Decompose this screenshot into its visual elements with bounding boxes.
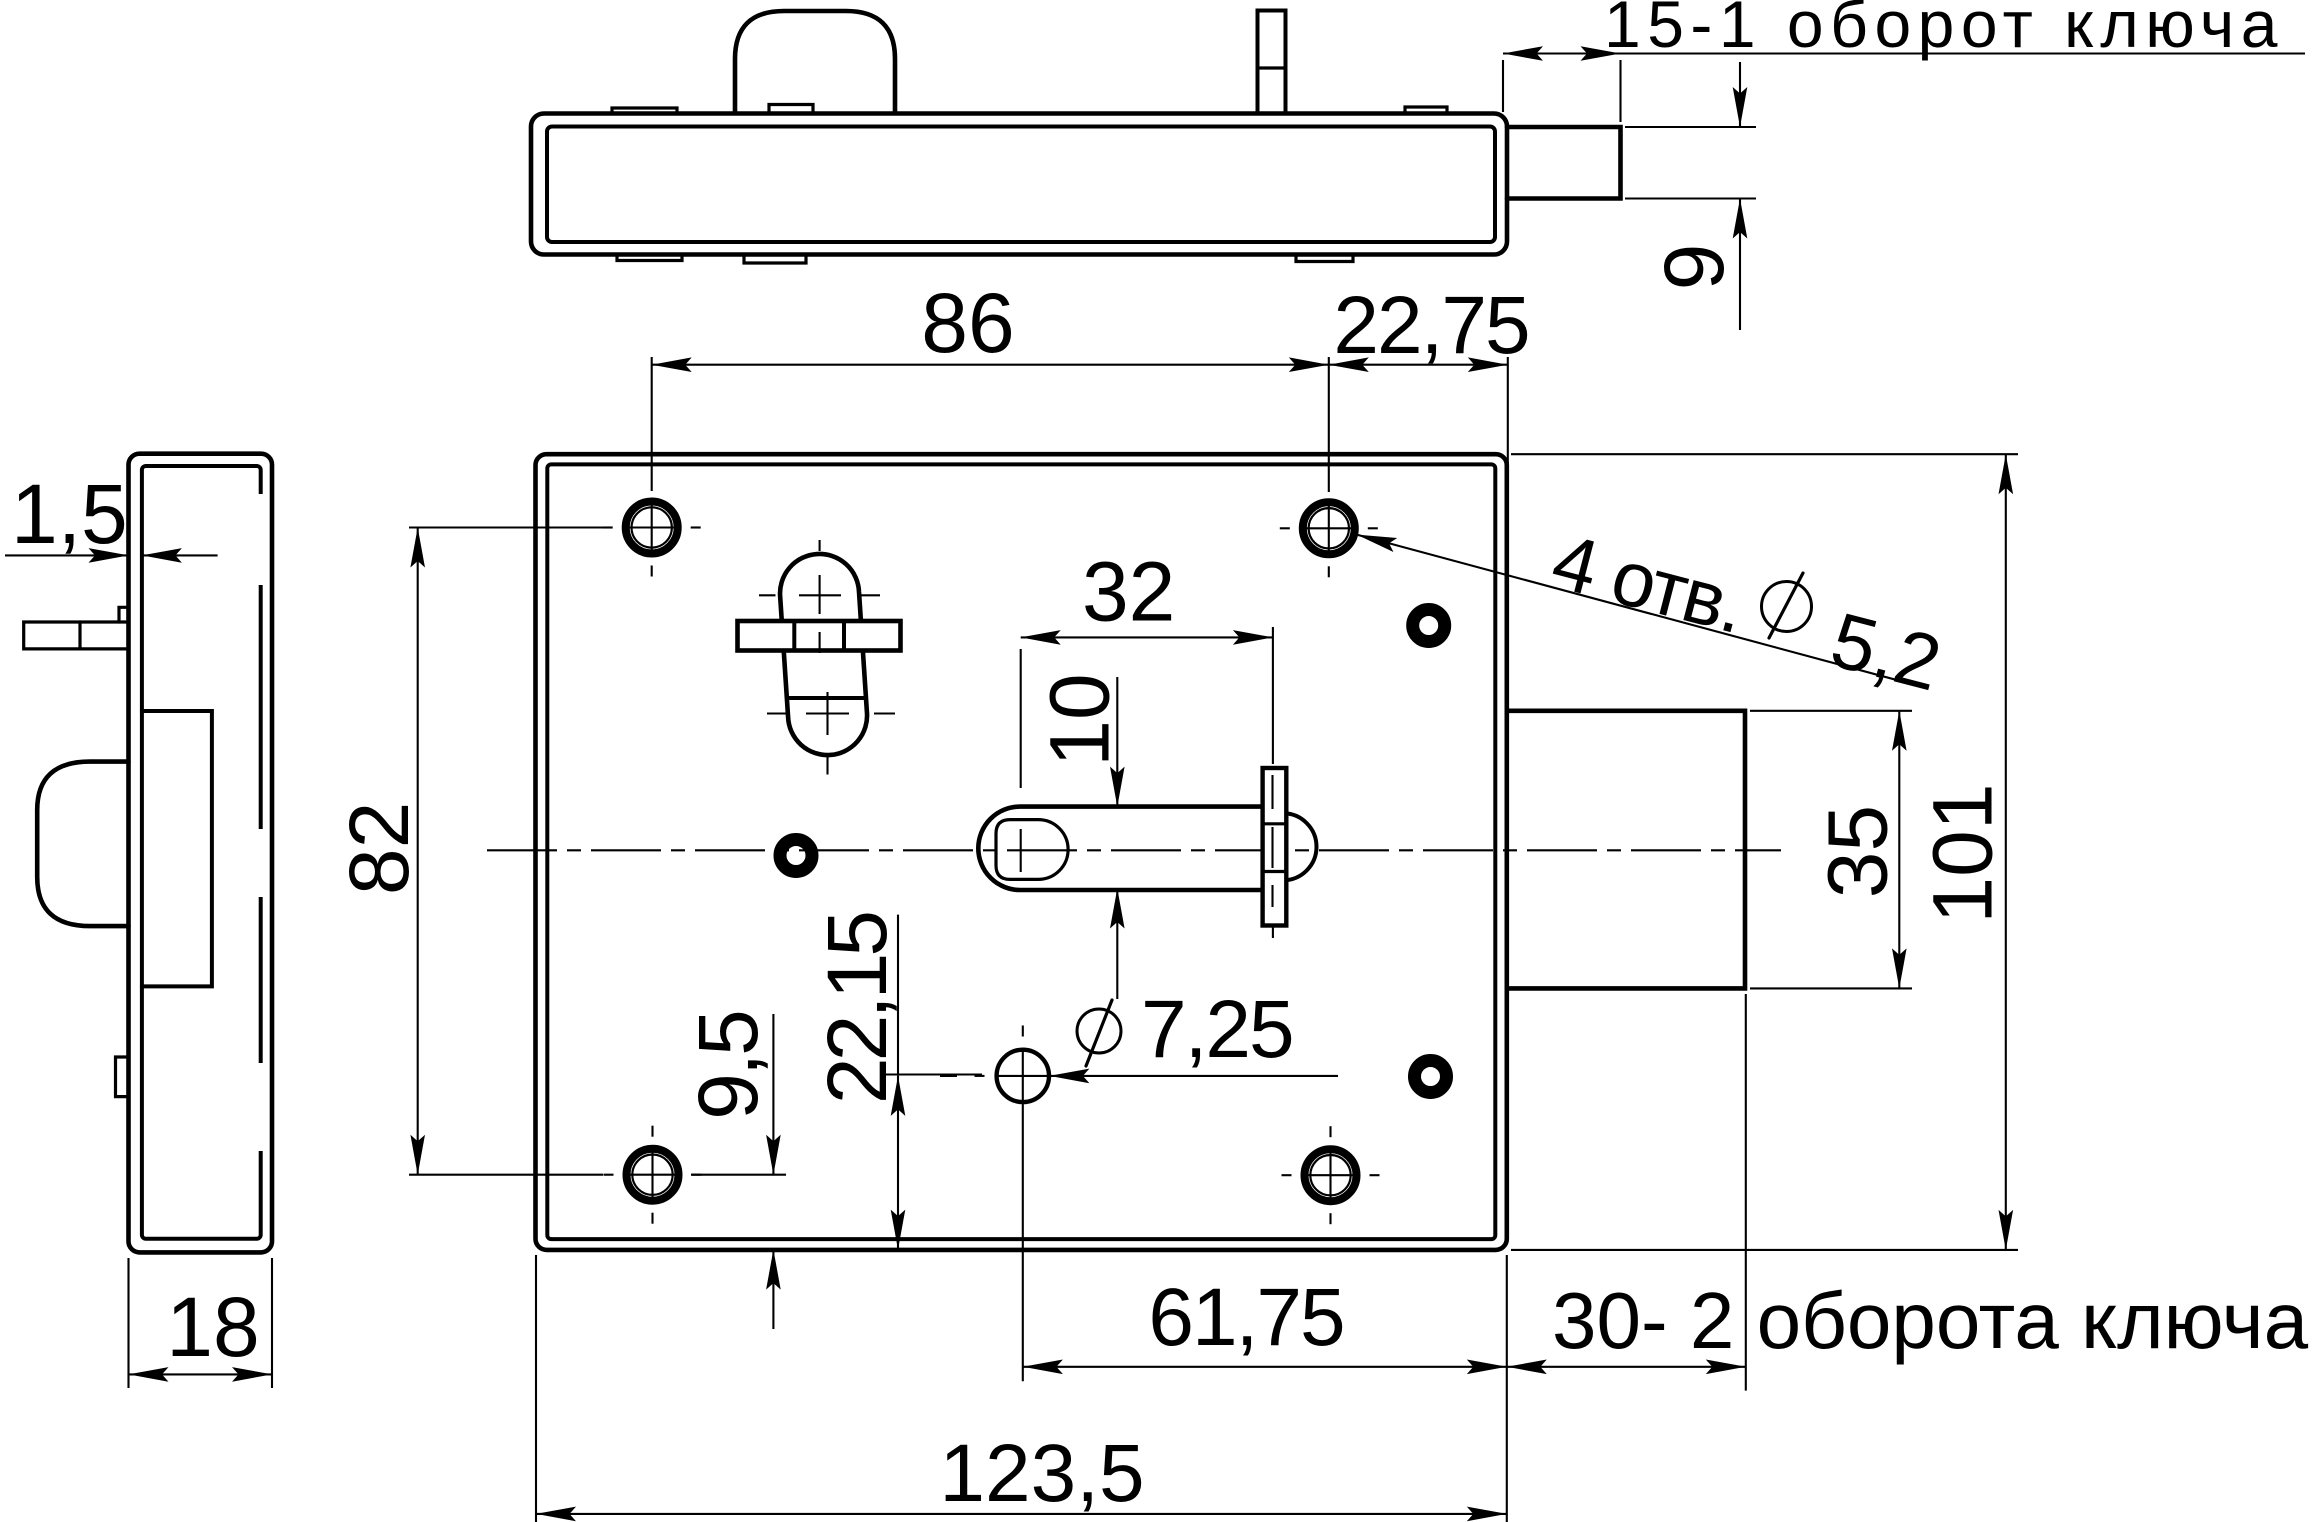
ext line left holes to 82 dim	[409, 526, 603, 528]
keyhole crosshair	[1020, 829, 1022, 872]
dimension 9,5	[772, 1014, 774, 1175]
svg-text:22,75: 22,75	[1333, 280, 1528, 371]
hole centerline dashes above bottom holes	[651, 1126, 653, 1137]
dimension 9 (bolt thickness, top view)	[1625, 126, 1756, 128]
dimension 61,75	[1023, 1366, 1507, 1368]
top view: lock body (plan)	[531, 114, 1507, 255]
hole d7,25	[997, 1050, 1049, 1102]
svg-text:61,75: 61,75	[1148, 1272, 1343, 1363]
mounting hole top-right	[1303, 502, 1355, 554]
svg-text:22,15: 22,15	[810, 913, 904, 1104]
svg-text:1,5: 1,5	[11, 467, 128, 561]
rivet dot top-right	[1413, 610, 1445, 642]
top view: shackle dome	[735, 11, 895, 113]
svg-text:18: 18	[166, 1280, 259, 1374]
dimension 15-1 oborot klyucha	[1502, 60, 1504, 112]
mounting hole bottom-right	[1305, 1149, 1357, 1201]
main horizontal centerline	[487, 849, 1781, 851]
dimension 86 and 22,75	[651, 357, 653, 491]
lever lower crosshair	[806, 712, 849, 714]
svg-text:7,25: 7,25	[1141, 984, 1293, 1075]
lever capsule (top-left mechanism)	[780, 554, 867, 755]
rivet dot center-left	[780, 840, 812, 872]
svg-text:9: 9	[1647, 244, 1741, 291]
top view: inner cover plate edge	[547, 127, 1495, 243]
top view: edge tabs	[612, 108, 677, 114]
plate centerline dashes	[1271, 775, 1273, 809]
top view: bolt (latch)	[1507, 127, 1621, 199]
leader 4 otv. d5,2	[1357, 535, 1919, 686]
svg-text:86: 86	[921, 276, 1014, 370]
side view: inner line breaks at tab positions	[256, 494, 266, 585]
semicircle behind plate	[1283, 813, 1317, 880]
dimension 18	[127, 1258, 129, 1388]
dimension 1,5	[5, 554, 129, 556]
svg-text:35: 35	[1811, 805, 1905, 898]
lever bar plate	[738, 621, 901, 651]
side view: small lug	[116, 1057, 129, 1097]
diameter symbol 5,2	[1762, 582, 1812, 632]
top view: locating pin	[1258, 11, 1286, 114]
svg-text:101: 101	[1916, 783, 2010, 923]
dimension 22,15	[897, 915, 899, 1076]
svg-text:82: 82	[332, 802, 426, 895]
dimension 10	[1116, 677, 1118, 807]
side view: inner plate edge	[142, 466, 261, 1239]
svg-text:32: 32	[1082, 545, 1175, 639]
svg-text:9,5: 9,5	[681, 1012, 775, 1120]
diameter symbol 7,25	[1077, 1009, 1121, 1053]
lever chord line	[787, 696, 866, 700]
side view: pin	[24, 622, 129, 649]
svg-text:10: 10	[1033, 673, 1127, 766]
dimension 32	[1021, 636, 1273, 638]
side view: bolt slot	[142, 711, 212, 986]
mounting hole top-left	[626, 502, 678, 554]
front view: inner cover plate edge	[547, 464, 1495, 1239]
ext line bottom-left hole to 9,5 dim	[691, 1174, 786, 1176]
dimension 35	[1750, 710, 1912, 712]
top view: dome notch	[769, 105, 813, 114]
keyhole slot inner outline	[996, 820, 1068, 880]
vertical plate on shaft	[1263, 768, 1287, 926]
dimension 123,5	[536, 1513, 1507, 1515]
dimension 30- 2 oborota klyucha	[1507, 1366, 1746, 1368]
front view: lock body outline	[536, 454, 1507, 1250]
side view: body outline	[129, 454, 273, 1253]
key shaft rod	[978, 807, 1262, 890]
dimension 101	[1511, 453, 2018, 455]
mounting hole bottom-left	[627, 1149, 679, 1201]
rivet dot bottom-right	[1415, 1061, 1447, 1093]
svg-text:15-1 оборот ключа: 15-1 оборот ключа	[1604, 0, 2284, 61]
lever upper crosshair	[799, 594, 841, 596]
svg-text:30- 2 оборота ключа: 30- 2 оборота ключа	[1552, 1276, 2309, 1365]
leader d7,25	[1049, 1075, 1338, 1077]
dimension 82	[417, 528, 419, 1175]
side view: shackle (D-bolt)	[37, 762, 128, 927]
front view bolt	[1507, 711, 1745, 989]
svg-text:123,5: 123,5	[939, 1428, 1144, 1519]
